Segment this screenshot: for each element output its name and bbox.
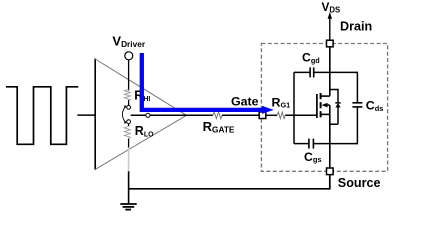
svg-text:RLO: RLO <box>135 124 154 138</box>
dashed MOSFET boundary box <box>261 44 387 172</box>
transistor Q1 MOSFET gate bar <box>316 94 318 118</box>
svg-text:VDS: VDS <box>322 0 341 14</box>
resistor R_G1 zigzag <box>277 112 285 119</box>
wire input stub to driver <box>77 114 95 116</box>
op-amp driver triangle <box>95 59 186 170</box>
wire top rail left of C_gd <box>294 71 310 73</box>
switch pole circle <box>146 113 150 117</box>
capacitor C_ds <box>352 103 362 107</box>
wire drain to body diode <box>330 90 338 103</box>
V_DS arrow up <box>328 12 332 40</box>
svg-text:Cds: Cds <box>366 99 384 113</box>
capacitor C_gd <box>310 67 314 77</box>
source terminal square <box>327 168 334 175</box>
wire R_LO inactive segment (gray) <box>128 147 130 171</box>
svg-text:Drain: Drain <box>340 20 372 34</box>
svg-text:Gate: Gate <box>231 95 259 109</box>
wire R_LO to ground rail <box>128 171 130 204</box>
wire switch pole to R_GATE <box>131 114 213 116</box>
terminal circle V_Driver <box>125 52 133 60</box>
wire R_HI to switch <box>128 100 130 105</box>
wire V_Driver to R_HI <box>128 60 130 91</box>
body diode D1 <box>335 103 340 124</box>
resistor R_HI zigzag <box>124 89 130 100</box>
switch throw circle bottom <box>127 120 131 124</box>
wire gate square to R_G1 <box>266 114 277 116</box>
wire R_G1 to MOSFET gate <box>285 114 317 116</box>
drain terminal square <box>327 40 334 47</box>
wire source to ground rail <box>129 175 330 189</box>
wire left branch vertical <box>293 72 295 143</box>
switch arc arrow <box>122 105 126 124</box>
wire R_GATE to gate node <box>222 114 259 116</box>
blue drive current path <box>142 53 274 114</box>
svg-text:Cgd: Cgd <box>302 51 320 65</box>
wire source vertical <box>329 105 331 168</box>
svg-text:RGATE: RGATE <box>203 119 235 135</box>
wire drain vertical <box>329 47 331 96</box>
wire switch to R_LO <box>128 124 130 127</box>
wire C_gs rail right to C_ds bottom <box>313 107 357 144</box>
transistor Q1 channel segments <box>320 93 322 117</box>
svg-text:RG1: RG1 <box>272 95 291 109</box>
input square wave <box>6 87 78 145</box>
svg-text:VDriver: VDriver <box>112 33 145 49</box>
resistor R_LO zigzag <box>124 126 130 138</box>
resistor R_GATE zigzag <box>213 112 222 119</box>
svg-text:Source: Source <box>338 176 381 190</box>
wire C_gs rail left <box>294 143 309 145</box>
wire diode bottom junction <box>330 123 338 125</box>
ground symbol <box>120 204 136 210</box>
wire top rail right of C_gd to C_ds <box>314 72 358 102</box>
capacitor C_gs <box>309 139 314 149</box>
wire R_LO down (black) <box>128 139 130 148</box>
transistor Q1 source contact <box>321 113 330 115</box>
gate terminal square <box>259 112 266 119</box>
svg-text:Cgs: Cgs <box>304 150 322 164</box>
transistor Q1 drain contact <box>321 95 330 97</box>
transistor Q1 body arrow <box>322 103 330 108</box>
switch throw circle top <box>127 105 131 109</box>
